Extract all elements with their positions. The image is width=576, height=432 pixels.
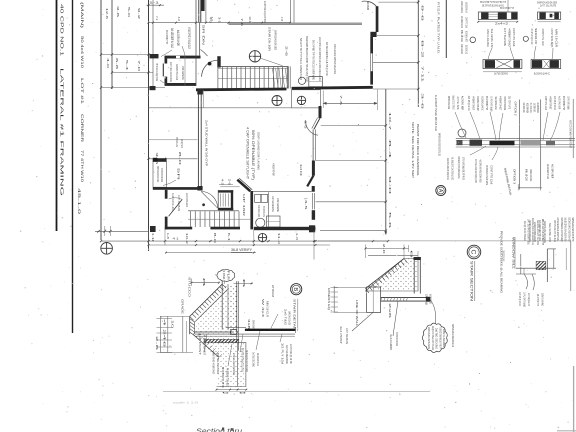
- svg-text:3x8 LEDGER W/ LAG: 3x8 LEDGER W/ LAG: [170, 28, 174, 48]
- svg-text:SEE DETAIL 3/S2: SEE DETAIL 3/S2: [548, 223, 552, 242]
- svg-text:1-8: 1-8: [166, 233, 170, 239]
- window east lower: [312, 129, 314, 160]
- svg-text:8-4: 8-4: [388, 140, 392, 159]
- room partition lines: [195, 0, 197, 86]
- svg-text:SIMPSON A35 EA SIDE 16d @ 12 O: SIMPSON A35 EA SIDE 16d @ 12 OC STAGG: [232, 353, 236, 375]
- svg-text:2x4 STUD WALL W 5/8 GYP: 2x4 STUD WALL W 5/8 GYP: [205, 120, 209, 166]
- grid line 2: [111, 0, 113, 89]
- door leaf stub: [217, 56, 220, 67]
- ext verticals bottom: [148, 230, 150, 247]
- interior lines upper right: [290, 0, 292, 23]
- foundation stem wall: [221, 281, 223, 330]
- svg-text:5-6: 5-6: [388, 212, 392, 229]
- foundation top dims: [191, 282, 219, 284]
- svg-text:5-0: 5-0: [127, 7, 131, 18]
- svg-text:PROVIDE SOLID BLKG @ ALL BEARI: PROVIDE SOLID BLKG @ ALL BEARING: [500, 231, 504, 294]
- svg-text:1-0: 1-0: [295, 233, 299, 241]
- svg-text:CONT FTG 12x6: CONT FTG 12x6: [465, 17, 469, 28]
- svg-text:7/8 STUCCO OVER WIRE: 7/8 STUCCO OVER WIRE: [155, 63, 159, 81]
- svg-text:50% OPENABLE (TYP): 50% OPENABLE (TYP): [251, 130, 255, 180]
- svg-text:SIMPSON A35 EA SIDE: SIMPSON A35 EA SIDE: [274, 30, 278, 50]
- detail A bottom ticks: [518, 187, 542, 189]
- svg-text:7/8 STUCCO OVER WIRE: 7/8 STUCCO OVER WIRE: [529, 103, 533, 113]
- svg-text:1 PLK: 1 PLK: [222, 271, 226, 280]
- lower right room bottom wall: [254, 227, 316, 230]
- svg-text:3x8: 3x8: [247, 319, 251, 330]
- deck edge line: [149, 107, 321, 109]
- svg-text:7/8 STUCCO OVER WIRE: 7/8 STUCCO OVER WIRE: [160, 168, 164, 182]
- svg-text:4x10 DF#1 HDR: 4x10 DF#1 HDR: [257, 205, 261, 217]
- svg-text:OPTION 2: OPTION 2: [514, 102, 518, 116]
- door leaf lower: [169, 199, 183, 216]
- foundation west wall hatch: [189, 316, 191, 334]
- keyed note circle below stair: [272, 96, 282, 106]
- deck dim 7-6: [323, 102, 377, 104]
- east wall low: [370, 71, 373, 84]
- plan west inner line: [152, 0, 154, 88]
- svg-text:B: B: [292, 287, 298, 291]
- stair right edge: [287, 66, 289, 88]
- party wall upper: [198, 0, 200, 22]
- svg-text:5/8 GYP BD TYP HOLD DOWN HD2A: 5/8 GYP BD TYP HOLD DOWN HD2A: [299, 38, 303, 81]
- keyed circle leader: [261, 58, 283, 66]
- entry door arc: [202, 60, 218, 77]
- svg-text:6-8: 6-8: [115, 58, 119, 70]
- svg-text:8-0: 8-0: [178, 152, 182, 166]
- wall west lower unit: [165, 190, 168, 199]
- svg-text:#4 REBAR TOP+BOT: #4 REBAR TOP+BOT: [499, 96, 503, 110]
- svg-text:#4 REBAR TOP+BOT #4 REBAR TOP+: #4 REBAR TOP+BOT #4 REBAR TOP+BOT: [212, 351, 216, 374]
- svg-text:3-6: 3-6: [421, 93, 425, 110]
- corridor wall south: [196, 88, 287, 92]
- svg-text:NOTE: SEE DETAIL 1/P2 SEP: NOTE: SEE DETAIL 1/P2 SEP: [411, 122, 415, 178]
- svg-text:5/8 GYP BD TYP: 5/8 GYP BD TYP: [165, 30, 169, 44]
- svg-text:2-0: 2-0: [382, 244, 386, 255]
- svg-text:5/8 GYP BD TYP: 5/8 GYP BD TYP: [562, 96, 566, 110]
- east wall upper: [376, 6, 379, 32]
- svg-text:1-1: 1-1: [149, 0, 160, 4]
- svg-text:4-0: 4-0: [106, 58, 110, 69]
- bar 3 ticks: [483, 71, 522, 73]
- detail A title bubble: [436, 186, 446, 196]
- anchor bolt: [195, 331, 234, 333]
- svg-text:HOLD DOWN HD2A: HOLD DOWN HD2A: [185, 193, 189, 207]
- svg-text:4x10 DF#1 HDR HOLD DOWN HD2A: 4x10 DF#1 HDR HOLD DOWN HD2A: [479, 160, 483, 183]
- svg-text:2x6 T&G: 2x6 T&G: [284, 309, 288, 326]
- foundation cloud: [217, 269, 235, 281]
- keyed note circle A: [297, 96, 305, 104]
- party wall lower: [197, 90, 199, 187]
- bath room outline: [292, 90, 321, 108]
- svg-text:HOLD DOWN HD2A 5/8 GYP BD TYP: HOLD DOWN HD2A 5/8 GYP BD TYP A.B. 5/8 @…: [305, 36, 309, 82]
- framing bar detail 3: [483, 60, 522, 69]
- wall west vertical: [165, 59, 168, 64]
- svg-text:SEE DETAIL 3/S2 2x P.T. SILL P: SEE DETAIL 3/S2 2x P.T. SILL PLATE: [536, 220, 540, 245]
- svg-text:GSM FLASHING: GSM FLASHING: [541, 293, 545, 306]
- dimension line: [101, 54, 153, 56]
- svg-text:ATRIUM: ATRIUM: [271, 285, 275, 298]
- svg-text:HOLD DOWN HD2A: HOLD DOWN HD2A: [536, 103, 540, 113]
- svg-text:HOLD DOWN HD2A 1/2 PLY SHTG 8d: HOLD DOWN HD2A 1/2 PLY SHTG 8d@6: [560, 218, 564, 242]
- fixture rect: [309, 77, 323, 87]
- svg-text:4-11: 4-11: [151, 233, 155, 242]
- svg-text:5/8 GYP BD TYP: 5/8 GYP BD TYP: [485, 96, 489, 110]
- window detail right edge lines: [570, 241, 572, 292]
- svg-text:1/2 PLY SHTG 8d@6: 1/2 PLY SHTG 8d@6: [490, 96, 494, 111]
- diagonal wall: [237, 180, 250, 192]
- svg-text:STAIR DETAIL: STAIR DETAIL: [293, 299, 297, 332]
- svg-text:GSM FLASHING GSM FLASHING: GSM FLASHING GSM FLASHING: [427, 327, 431, 349]
- svg-text:GSM FLASHING SIMPSON A35 EA SI: GSM FLASHING SIMPSON A35 EA SIDE: [333, 44, 337, 74]
- dim line right lower: [385, 89, 387, 235]
- detail A right edge lines: [572, 99, 574, 158]
- bottom dim line 1: [101, 240, 388, 242]
- svg-text:GSM FLASHING: GSM FLASHING: [181, 66, 185, 80]
- revision cloud: [422, 323, 447, 352]
- svg-text:7-1: 7-1: [155, 16, 159, 21]
- svg-text:2-6: 2-6: [228, 179, 232, 186]
- svg-text:#4 REBAR TOP+BOT: #4 REBAR TOP+BOT: [203, 335, 207, 355]
- svg-text:2x4+2: 2x4+2: [495, 22, 509, 26]
- foundation concrete fill: [196, 286, 246, 387]
- east window low: [312, 193, 314, 209]
- svg-text:BLOCKING @ 48 OC: BLOCKING @ 48 OC: [534, 71, 550, 75]
- svg-text:CONT FTG 12x6: CONT FTG 12x6: [512, 28, 516, 46]
- svg-text:7/8 STUCCO OVER WIRE: 7/8 STUCCO OVER WIRE: [485, 165, 489, 185]
- svg-text:#4 REBAR TOP+BOT: #4 REBAR TOP+BOT: [476, 96, 480, 111]
- stair rail line: [218, 77, 289, 79]
- foundation leaders: [204, 334, 207, 352]
- double door arcs: [201, 191, 217, 208]
- svg-text:4x10 DF#1 HDR: 4x10 DF#1 HDR: [551, 164, 555, 178]
- svg-text:45-1-0: 45-1-0: [77, 188, 81, 214]
- mid dim line: [149, 158, 198, 160]
- svg-text:7/8 STUCCO OVER WIRE 5/8 GYP B: 7/8 STUCCO OVER WIRE 5/8 GYP BD TYP: [438, 327, 442, 349]
- detail C stud wall: [413, 257, 415, 294]
- svg-text:50 4x4 W10: 50 4x4 W10: [80, 36, 84, 68]
- svg-text:LATERAL #1 FRAMING: LATERAL #1 FRAMING: [60, 68, 65, 197]
- floor framing lines: [245, 329, 296, 331]
- svg-text:GSM FLASHING: GSM FLASHING: [442, 329, 446, 347]
- svg-text:2x P.T. SILL PLATE: 2x P.T. SILL PLATE: [503, 28, 507, 46]
- dimension line: [101, 87, 165, 89]
- window sill profile: [520, 254, 522, 274]
- dim line right upper: [417, 0, 419, 107]
- svg-text:4-0: 4-0: [209, 17, 213, 24]
- detail C sloped hatch edge: [366, 259, 405, 289]
- svg-text:R-13 BATT INSUL MIN 18 CLR: R-13 BATT INSUL MIN 18 CLR: [434, 95, 438, 131]
- svg-text:RISERS EQ: RISERS EQ: [327, 288, 331, 311]
- svg-text:11-0: 11-0: [277, 233, 281, 245]
- svg-text:#4 REBAR TOP+BOT SIMPSON A35 E: #4 REBAR TOP+BOT SIMPSON A35 EA SIDE: [187, 27, 191, 49]
- faint rule: [163, 391, 430, 393]
- svg-text:9-0: 9-0: [388, 176, 392, 195]
- svg-text:2x6 T&G DECKING R-13 BATT INSU: 2x6 T&G DECKING R-13 BATT INSUL: [556, 218, 560, 242]
- detail C ext lines: [334, 287, 366, 289]
- sheet border line inner: [72, 0, 74, 333]
- svg-text:4x10 DF#1 HDR: 4x10 DF#1 HDR: [461, 96, 465, 110]
- svg-text:2x6: 2x6: [388, 303, 392, 319]
- svg-text:7/8 STUCCO OVER WIRE #4 REBAR: 7/8 STUCCO OVER WIRE #4 REBAR TOP+BOT: [569, 120, 573, 148]
- atrium floor line: [149, 139, 198, 141]
- svg-text:#4 REBAR TOP+BOT: #4 REBAR TOP+BOT: [508, 28, 512, 47]
- detail A blocks: [457, 140, 463, 145]
- svg-text:R-13 BATT INSUL 16d @ 12 OC ST: R-13 BATT INSUL 16d @ 12 OC STAGG: [263, 1, 267, 23]
- top mini dim: [147, 4, 165, 6]
- svg-text:12-6: 12-6: [105, 8, 109, 20]
- top double wall line: [229, 22, 363, 24]
- detail C dim lines: [366, 247, 409, 249]
- svg-text:SEE DETAIL 3/S2: SEE DETAIL 3/S2: [465, 45, 469, 54]
- svg-text:2x P.T. SILL PLATE 2x4 STUD @: 2x P.T. SILL PLATE 2x4 STUD @ 16 OC: [474, 159, 478, 183]
- svg-text:10-2: 10-2: [185, 233, 189, 245]
- framing bar detail 4: [531, 60, 561, 69]
- svg-text:LINE OF WALL: LINE OF WALL: [355, 300, 359, 327]
- foundation sloped edge: [190, 284, 223, 316]
- dim ticks above elevator: [219, 184, 233, 186]
- door jamb block: [370, 32, 376, 37]
- ext lines right upper: [378, 1, 418, 3]
- footing lines: [217, 342, 247, 344]
- svg-text:3-6: 3-6: [116, 6, 120, 18]
- svg-text:A.B. 5/8 @ 32 OC: A.B. 5/8 @ 32 OC: [467, 96, 471, 111]
- wall east lower unit: [250, 191, 253, 229]
- framing bar detail 1: [478, 12, 517, 19]
- keyed note circle lower: [258, 233, 266, 241]
- svg-text:4x10 DF#1 HDR: 4x10 DF#1 HDR: [522, 103, 526, 113]
- svg-text:SEE DETAIL 3/S2: SEE DETAIL 3/S2: [534, 28, 538, 44]
- svg-text:2x6 T&G DECKING: 2x6 T&G DECKING: [494, 72, 508, 76]
- foundation left dims: [159, 316, 161, 353]
- bath partition: [268, 192, 270, 226]
- svg-text:1/2 PLY SHTG 8d@6 DBL TOP PLAT: 1/2 PLY SHTG 8d@6 DBL TOP PLATE: [462, 157, 466, 180]
- svg-text:DBL TOP PLATE: DBL TOP PLATE: [508, 96, 512, 109]
- svg-text:2x6 T&G DECKING A.B. 5/8 @ 32: 2x6 T&G DECKING A.B. 5/8 @ 32 OC: [325, 42, 329, 77]
- svg-text:2x P.T. SILL PLATE: 2x P.T. SILL PLATE: [177, 195, 181, 211]
- svg-text:#4 REBAR TOP+BOT: #4 REBAR TOP+BOT: [226, 368, 230, 387]
- svg-text:CONT FTG 12x6: CONT FTG 12x6: [544, 96, 548, 110]
- svg-text:7/8 STUCCO OVER WIRE: 7/8 STUCCO OVER WIRE: [262, 206, 266, 217]
- detail C left dims: [333, 286, 335, 313]
- page corner bottom: [557, 430, 576, 432]
- svg-text:GSM FLASHING GSM FLASHING: GSM FLASHING GSM FLASHING: [257, 132, 261, 171]
- svg-text:7-0: 7-0: [137, 60, 141, 72]
- svg-text:SIMPSON A35 EA SIDE: SIMPSON A35 EA SIDE: [447, 96, 451, 109]
- svg-text:2x6 T&G DECKING: 2x6 T&G DECKING: [169, 62, 173, 82]
- svg-text:2x6 T&G DECKING: 2x6 T&G DECKING: [285, 345, 289, 365]
- svg-text:DBL TOP PLATE: DBL TOP PLATE: [533, 103, 537, 112]
- keyed note circle stair: [249, 51, 260, 62]
- sheet border line left: [56, 0, 58, 231]
- svg-text:7-11: 7-11: [421, 66, 425, 83]
- svg-text:1/2 PLY SHTG 8d@6: 1/2 PLY SHTG 8d@6: [523, 292, 527, 307]
- svg-text:9-2: 9-2: [137, 8, 141, 20]
- svg-text:LOT #1: LOT #1: [80, 78, 84, 104]
- long reference line: [318, 240, 571, 242]
- bottom dim line 3: [166, 252, 256, 254]
- toilet circle: [256, 218, 265, 227]
- svg-text:2x P.T. SILL PLATE: 2x P.T. SILL PLATE: [540, 4, 556, 8]
- upper dim line across: [148, 22, 290, 24]
- svg-text:2x P.T. SILL PLATE: 2x P.T. SILL PLATE: [456, 97, 460, 110]
- detail A circle symbol: [458, 129, 466, 137]
- svg-text:1/2 PLY SHTG 8d@6: 1/2 PLY SHTG 8d@6: [550, 28, 554, 47]
- svg-text:A.B. 5/8 @ 32 OC: A.B. 5/8 @ 32 OC: [518, 292, 522, 306]
- svg-text:6-1: 6-1: [227, 233, 231, 242]
- svg-text:3-0: 3-0: [304, 121, 308, 130]
- svg-text:1/2 PLY 10d: 1/2 PLY 10d: [281, 343, 285, 365]
- svg-text:16d @ 12 OC STAGG: 16d @ 12 OC STAGG: [523, 221, 527, 241]
- svg-text:4x10 DF#1 HDR A.B. 5/8 @ 32 OC: 4x10 DF#1 HDR A.B. 5/8 @ 32 OC: [446, 158, 450, 180]
- detail C leaders and notes: [352, 312, 373, 331]
- door arc top right: [362, 1, 377, 6]
- door arc east: [305, 120, 318, 135]
- leader curves: [488, 48, 492, 60]
- svg-text:7-6: 7-6: [339, 95, 343, 106]
- svg-text:BLOCKING @ 48 OC HOLD DOWN HD2: BLOCKING @ 48 OC HOLD DOWN HD2A: [567, 218, 571, 242]
- svg-text:GSM FLASHING: GSM FLASHING: [252, 320, 256, 329]
- svg-text:STAIR DN 16R: STAIR DN 16R: [268, 27, 272, 52]
- svg-text:4-0: 4-0: [177, 17, 181, 22]
- svg-text:4x10 HDR: 4x10 HDR: [389, 334, 393, 351]
- svg-text:1/2 PLY SHTG 8d@6: 1/2 PLY SHTG 8d@6: [425, 294, 429, 305]
- svg-text:2x6 T&G DECKING: 2x6 T&G DECKING: [252, 352, 256, 367]
- svg-text:HOLD DOWN HD2A SIMPSON A35 EA: HOLD DOWN HD2A SIMPSON A35 EA SIDE GSM F…: [318, 37, 322, 81]
- svg-text:7/8 STUCCO OVER WIRE: 7/8 STUCCO OVER WIRE: [395, 332, 399, 346]
- svg-text:10: 10: [171, 320, 175, 329]
- svg-text:5/8 GYP BD TYP: 5/8 GYP BD TYP: [500, 6, 514, 10]
- svg-text:#4 REBAR TOP+BOT: #4 REBAR TOP+BOT: [549, 96, 553, 109]
- svg-text:SIMPSON A35 EA SIDE SEE DETAIL: SIMPSON A35 EA SIDE SEE DETAIL 3/S2: [438, 133, 442, 156]
- svg-text:(MAIN): (MAIN): [80, 2, 84, 30]
- plan west line: [148, 0, 150, 251]
- east wall mid: [370, 37, 373, 53]
- sill plate hatch: [205, 339, 239, 342]
- grid line: [100, 0, 102, 240]
- detail A band lines: [456, 137, 575, 139]
- stair rail lower: [188, 218, 250, 220]
- label leaders: [161, 50, 172, 57]
- svg-text:3068: 3068: [366, 1, 370, 11]
- party wall cap: [201, 0, 205, 11]
- wall bottom of room: [165, 83, 197, 86]
- svg-text:#4 REBAR TOP+BOT: #4 REBAR TOP+BOT: [472, 96, 476, 110]
- svg-text:#4 REBAR TOP+BOT: #4 REBAR TOP+BOT: [272, 163, 276, 176]
- svg-text:36-8 VERIFY: 36-8 VERIFY: [231, 248, 253, 252]
- svg-text:2x P.T. SILL PLATE R-13 BATT I: 2x P.T. SILL PLATE R-13 BATT INSUL: [527, 219, 531, 245]
- detail C beam: [381, 297, 431, 299]
- svg-text:A.B. 5/8 @ 32 OC: A.B. 5/8 @ 32 OC: [527, 293, 531, 306]
- elevator room: [218, 190, 233, 192]
- svg-text:A.B. 5/8 @ 32 OC 2x4 STUD @ 16: A.B. 5/8 @ 32 OC 2x4 STUD @ 16 OC: [451, 157, 455, 180]
- svg-text:PERMIT FOR DECK GUARDRAIL: PERMIT FOR DECK GUARDRAIL: [416, 124, 420, 176]
- svg-text:2-6: 2-6: [285, 46, 289, 57]
- svg-text:4x10 DF#1 HDR: 4x10 DF#1 HDR: [176, 30, 180, 46]
- svg-text:5/8 GYP BD TYP 7/8 STUCCO OVER: 5/8 GYP BD TYP 7/8 STUCCO OVER WIRE: [312, 40, 316, 80]
- svg-text:2x4 STUD @ 16 OC: 2x4 STUD @ 16 OC: [530, 29, 534, 45]
- svg-text:2x6 T&G DECKING: 2x6 T&G DECKING: [216, 353, 220, 375]
- window east: [370, 53, 372, 71]
- svg-text:CORNER: CORNER: [80, 114, 84, 142]
- svg-text:16d @ 12 OC STAGG CONT FTG 12x: 16d @ 12 OC STAGG CONT FTG 12x6: [431, 326, 435, 350]
- svg-text:7/8 STUCCO OVER WIRE: 7/8 STUCCO OVER WIRE: [502, 251, 506, 262]
- svg-text:7/8 STUCCO OVER WIRE: 7/8 STUCCO OVER WIRE: [503, 96, 507, 110]
- party wall pier top: [197, 89, 203, 95]
- detail A verticals: [519, 100, 521, 190]
- bath top edge: [253, 191, 312, 193]
- party wall pier bottom: [197, 186, 202, 191]
- window detail hatch block: [536, 261, 546, 269]
- svg-text:77 4TH W10: 77 4TH W10: [80, 150, 84, 182]
- svg-text:40 CPD NO.1: 40 CPD NO.1: [60, 4, 65, 57]
- svg-text:4-5: 4-5: [304, 200, 308, 211]
- svg-text:MIN 18 CLR 5/8 GYP BD TYP: MIN 18 CLR 5/8 GYP BD TYP: [541, 219, 545, 245]
- svg-text:P.T.D.F. PLATES TYP U.N.O.: P.T.D.F. PLATES TYP U.N.O.: [437, 2, 441, 54]
- svg-text:CONT FTG 12x6: CONT FTG 12x6: [541, 29, 545, 46]
- party wall mid: [199, 22, 201, 55]
- svg-text:SIMPSON A35 EA SIDE: SIMPSON A35 EA SIDE: [175, 137, 179, 147]
- svg-text:BLOCKING @ 48 OC: BLOCKING @ 48 OC: [481, 96, 485, 110]
- svg-text:3x8 LEDGER W/ LAG: 3x8 LEDGER W/ LAG: [546, 164, 550, 179]
- wall segment west mid: [153, 158, 167, 161]
- bay diagonal upper: [314, 118, 320, 129]
- svg-text:5/8 GYP BD TYP: 5/8 GYP BD TYP: [536, 294, 540, 306]
- svg-text:4-2: 4-2: [221, 179, 225, 186]
- svg-text:BLOCKING @ 48 OC GSM FLASHING: BLOCKING @ 48 OC GSM FLASHING: [457, 157, 461, 179]
- svg-text:4x6 POST: 4x6 POST: [198, 333, 202, 355]
- bar 1 ticks and text: [478, 21, 517, 23]
- svg-text:2x4 STUD @ 16 OC: 2x4 STUD @ 16 OC: [289, 344, 293, 364]
- svg-text:16d @ 12 OC STAGG: 16d @ 12 OC STAGG: [452, 96, 456, 110]
- svg-text:SIMPSON A35 EA SIDE 5/8 GYP BD: SIMPSON A35 EA SIDE 5/8 GYP BD TYP: [571, 218, 575, 242]
- footing bottom dims: [217, 389, 247, 391]
- bath fixtures: [255, 195, 261, 203]
- svg-text:GRADE: GRADE: [181, 299, 185, 314]
- lower stair treads: [188, 210, 239, 212]
- svg-text:FLR: FLR: [227, 271, 231, 280]
- svg-text:2x6 T&G DECKING: 2x6 T&G DECKING: [271, 196, 275, 212]
- svg-text:4x10 DF#1 HDR: 4x10 DF#1 HDR: [558, 96, 562, 109]
- vanity rect: [267, 216, 281, 227]
- svg-text:SIMPSON A35 EA SIDE: SIMPSON A35 EA SIDE: [288, 311, 292, 325]
- door leaf west: [162, 64, 164, 77]
- svg-text:MIN 18 CLR: MIN 18 CLR: [525, 169, 529, 181]
- svg-text:GSM FLASHING: GSM FLASHING: [460, 1, 464, 13]
- wall pier 2: [150, 86, 156, 90]
- svg-text:A.B. 5/8 @ 32 OC: A.B. 5/8 @ 32 OC: [553, 96, 557, 110]
- bay diagonal lower: [307, 176, 313, 187]
- svg-text:BLOCKING @ 48 OC: BLOCKING @ 48 OC: [221, 367, 225, 388]
- svg-text:MIN 18 CLR: MIN 18 CLR: [266, 301, 270, 317]
- detail B bubble: [291, 284, 302, 295]
- window detail lines: [516, 267, 556, 269]
- svg-text:STUCCO: STUCCO: [188, 277, 192, 298]
- small circle symbol: [470, 37, 476, 43]
- svg-text:GSM FLASHING: GSM FLASHING: [529, 169, 533, 181]
- wall top lower unit: [153, 187, 201, 190]
- detail A leader curves: [455, 112, 466, 138]
- detail C title bubble: [467, 245, 481, 259]
- page edge right: [573, 366, 575, 432]
- detail C post: [367, 287, 381, 312]
- svg-text:1/2 PLY SHTG 8d@6: 1/2 PLY SHTG 8d@6: [567, 96, 571, 109]
- svg-text:UP 16R: UP 16R: [242, 194, 246, 218]
- svg-text:W 4x4: W 4x4: [261, 299, 265, 318]
- svg-text:MIN 18 CLR: MIN 18 CLR: [460, 30, 464, 42]
- wall top horizontal: [165, 56, 201, 59]
- svg-text:OPTION 3: OPTION 3: [513, 169, 517, 184]
- svg-text:scale 1 1-0: scale 1 1-0: [173, 401, 199, 405]
